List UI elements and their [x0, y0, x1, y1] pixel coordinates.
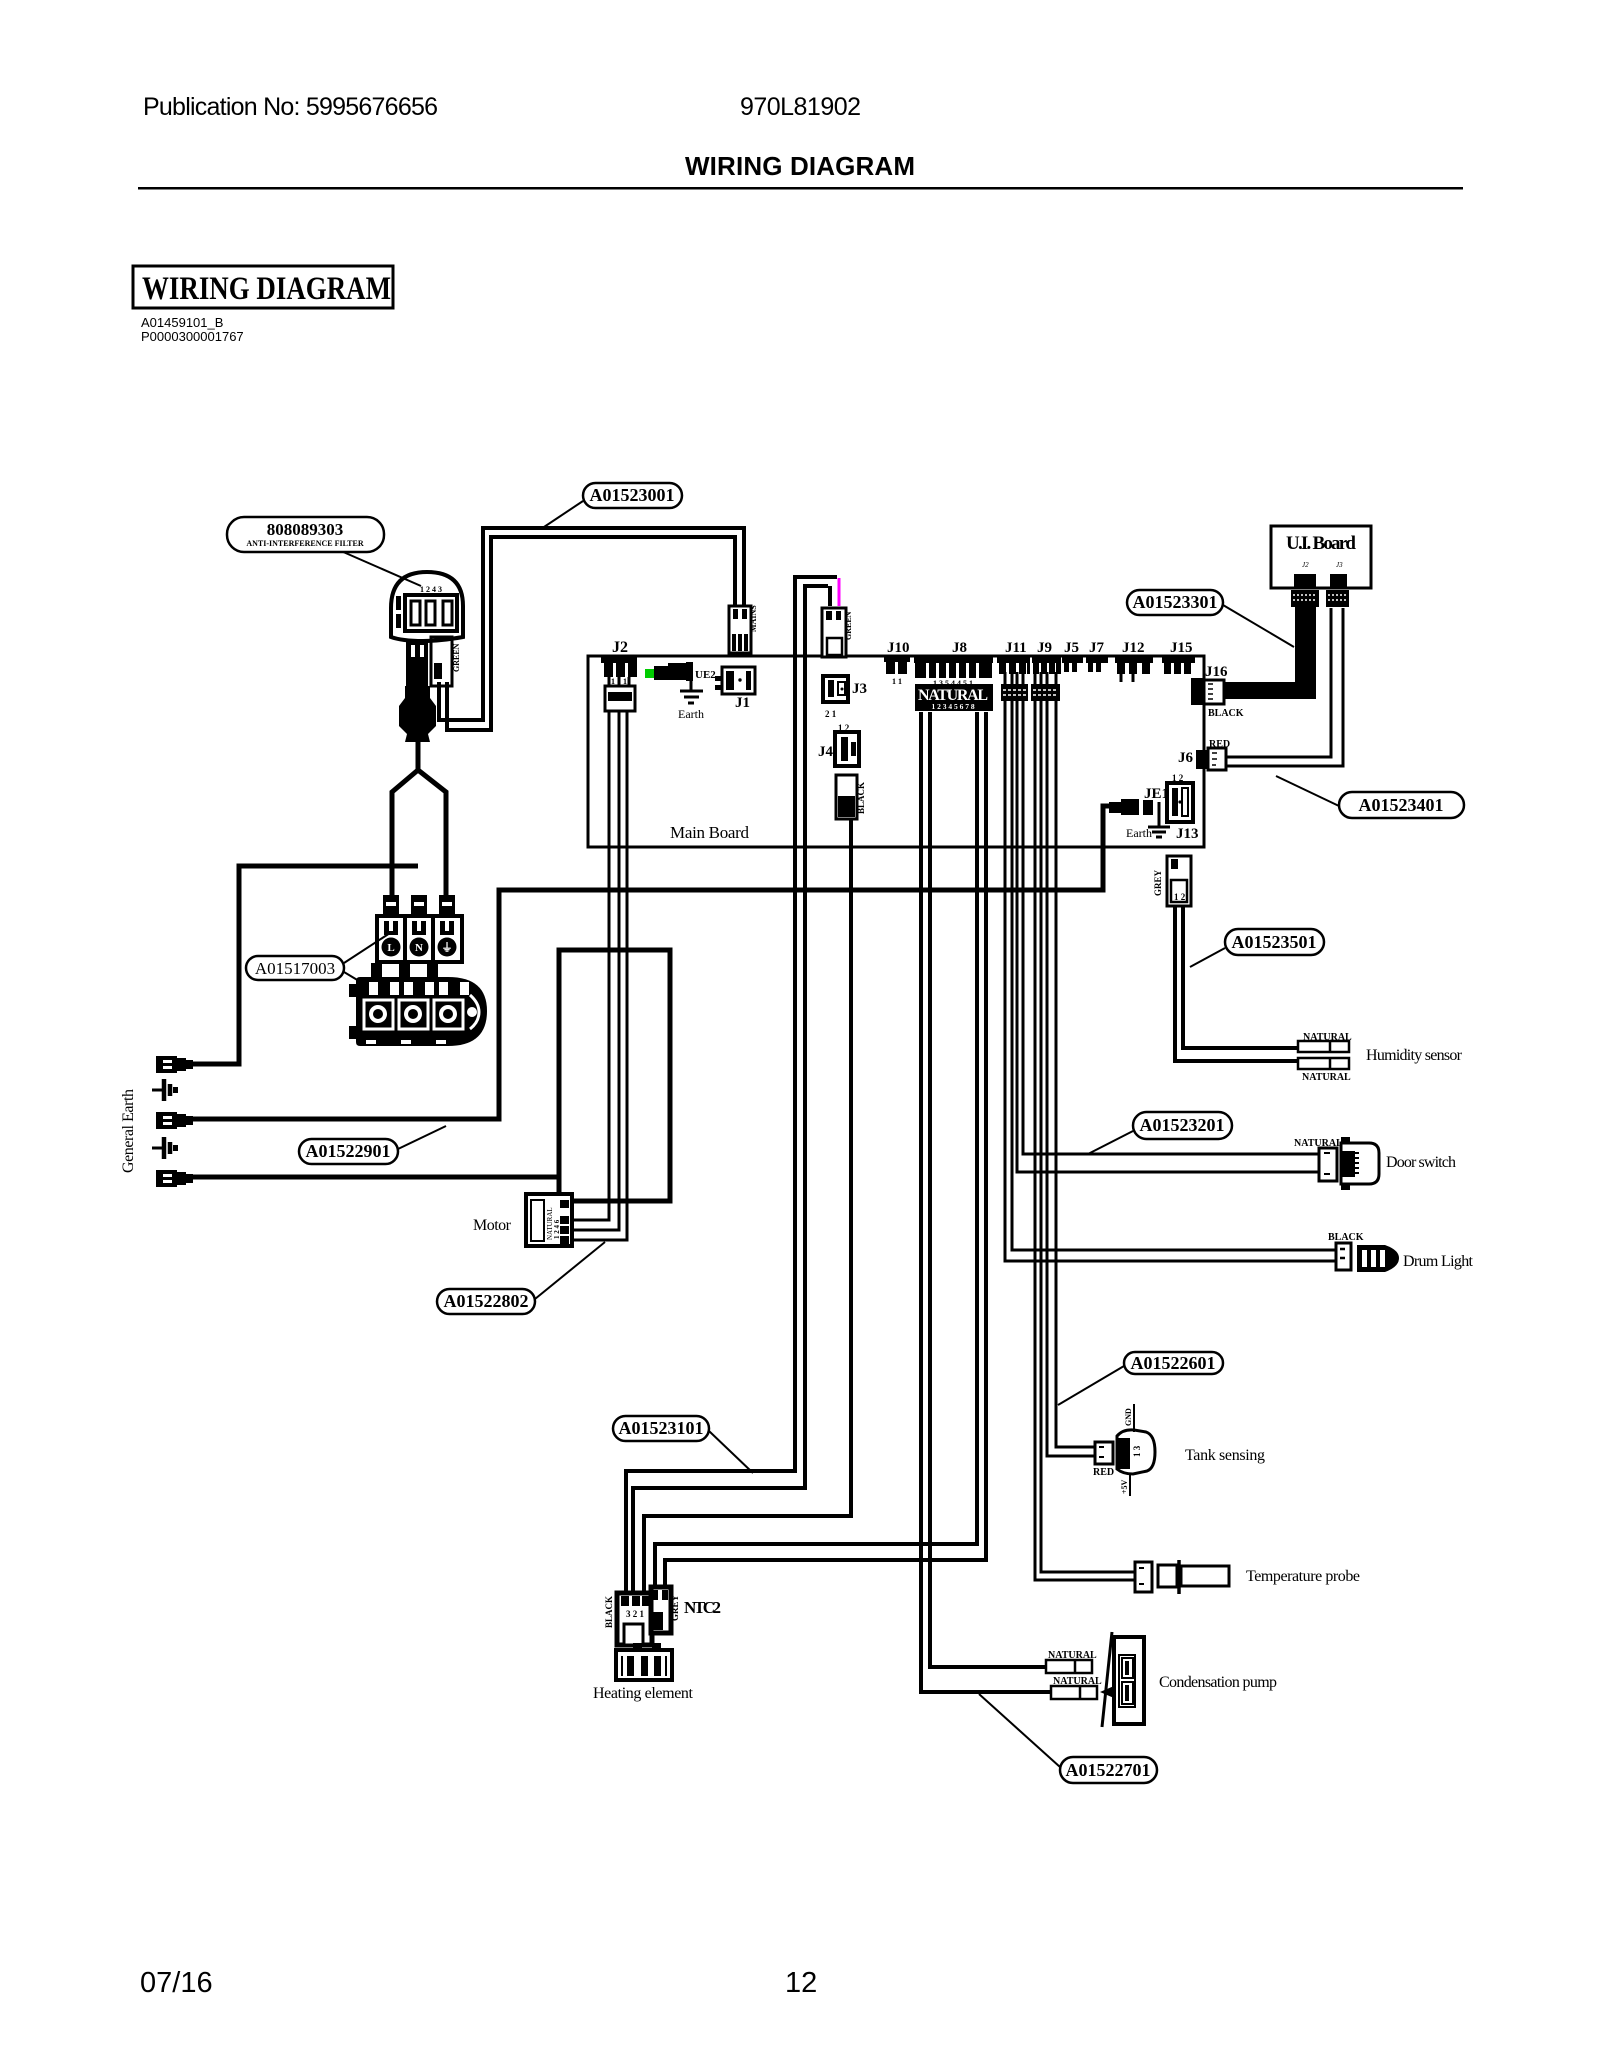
svg-text:A01522901: A01522901: [306, 1141, 391, 1161]
svg-text:J2: J2: [1302, 561, 1309, 569]
svg-text:07/16: 07/16: [140, 1967, 213, 1999]
svg-text:WIRING DIAGRAM: WIRING DIAGRAM: [142, 271, 391, 307]
svg-text:BLACK: BLACK: [604, 1596, 614, 1628]
svg-text:A01522601: A01522601: [1131, 1353, 1216, 1373]
svg-text:J4: J4: [818, 744, 834, 760]
svg-text:+5V: +5V: [1120, 1479, 1129, 1494]
svg-text:J8: J8: [952, 640, 967, 656]
svg-text:L: L: [387, 942, 394, 954]
svg-text:GND: GND: [1124, 1408, 1133, 1426]
svg-text:ANTI-INTERFERENCE FILTER: ANTI-INTERFERENCE FILTER: [246, 539, 364, 548]
svg-text:MAINS: MAINS: [749, 605, 758, 632]
svg-text:A01523201: A01523201: [1140, 1115, 1225, 1135]
svg-text:A01523101: A01523101: [619, 1418, 704, 1438]
svg-text:NATURAL: NATURAL: [1303, 1032, 1352, 1043]
svg-text:J9: J9: [1037, 640, 1052, 656]
svg-text:Earth: Earth: [678, 707, 704, 721]
svg-text:J13: J13: [1176, 826, 1199, 842]
svg-text:Condensation pump: Condensation pump: [1159, 1674, 1277, 1691]
svg-text:GREY: GREY: [1153, 869, 1163, 896]
svg-text:Main Board: Main Board: [670, 823, 750, 842]
svg-text:GREEN: GREEN: [844, 611, 853, 640]
svg-text:A01523001: A01523001: [590, 485, 675, 505]
svg-text:General Earth: General Earth: [120, 1089, 137, 1173]
svg-text:J5: J5: [1064, 640, 1079, 656]
svg-text:J3: J3: [1336, 561, 1343, 569]
svg-text:A01523401: A01523401: [1359, 795, 1444, 815]
svg-text:J11: J11: [1005, 640, 1027, 656]
svg-text:⏚: ⏚: [442, 941, 453, 954]
svg-text:GREEN: GREEN: [452, 643, 461, 672]
svg-text:Tank sensing: Tank sensing: [1185, 1447, 1265, 1464]
svg-text:N: N: [415, 942, 423, 954]
svg-text:970L81902: 970L81902: [740, 93, 861, 121]
svg-text:Publication No: 5995676656: Publication No: 5995676656: [143, 93, 438, 121]
svg-text:NATURAL: NATURAL: [1302, 1072, 1351, 1083]
svg-text:J7: J7: [1089, 640, 1105, 656]
svg-text:J3: J3: [852, 681, 867, 697]
svg-text:J15: J15: [1170, 640, 1193, 656]
svg-text:Door switch: Door switch: [1386, 1154, 1456, 1171]
svg-text:UE2: UE2: [695, 669, 716, 681]
svg-text:BLACK: BLACK: [1208, 708, 1244, 719]
svg-text:12: 12: [785, 1967, 817, 1999]
svg-text:Temperature probe: Temperature probe: [1246, 1568, 1360, 1585]
svg-text:J1: J1: [735, 695, 750, 711]
svg-text:1 3: 1 3: [1132, 1445, 1142, 1457]
svg-text:GREY: GREY: [670, 1594, 680, 1621]
svg-text:1 2 3 4 5 6 7 8: 1 2 3 4 5 6 7 8: [931, 702, 974, 711]
svg-text:J16: J16: [1205, 664, 1228, 680]
svg-text:Humidity sensor: Humidity sensor: [1366, 1047, 1463, 1064]
svg-text:BLACK: BLACK: [856, 782, 866, 814]
svg-text:J10: J10: [887, 640, 910, 656]
svg-text:Motor: Motor: [473, 1217, 512, 1234]
svg-text:1 1: 1 1: [892, 677, 902, 686]
svg-text:Drum Light: Drum Light: [1403, 1253, 1474, 1270]
svg-text:2 1: 2 1: [825, 709, 837, 719]
svg-text:1 2 4 3: 1 2 4 3: [420, 585, 442, 594]
svg-text:Heating element: Heating element: [593, 1685, 694, 1702]
svg-text:A01459101_B: A01459101_B: [141, 315, 223, 330]
svg-text:RED: RED: [1093, 1467, 1114, 1478]
svg-text:P0000300001767: P0000300001767: [141, 329, 244, 344]
svg-text:RED: RED: [1209, 739, 1230, 750]
svg-text:A01517003: A01517003: [255, 959, 335, 978]
svg-text:U.I. Board: U.I. Board: [1286, 533, 1356, 554]
svg-text:J12: J12: [1122, 640, 1145, 656]
svg-text:1: 1: [839, 805, 844, 815]
svg-text:J2: J2: [612, 639, 628, 656]
svg-text:A01522701: A01522701: [1066, 1760, 1151, 1780]
svg-text:1 2: 1 2: [1174, 892, 1186, 902]
svg-text:J6: J6: [1178, 750, 1194, 766]
svg-text:3 2 1: 3 2 1: [626, 1609, 645, 1619]
svg-text:A01523301: A01523301: [1133, 592, 1218, 612]
svg-text:A01523501: A01523501: [1232, 932, 1317, 952]
svg-text:A01522802: A01522802: [444, 1291, 529, 1311]
svg-text:Earth: Earth: [1126, 826, 1152, 840]
svg-text:WIRING DIAGRAM: WIRING DIAGRAM: [685, 151, 915, 181]
svg-text:808089303: 808089303: [267, 520, 344, 539]
svg-text:BLACK: BLACK: [1328, 1232, 1364, 1243]
svg-text:1 2 4 6: 1 2 4 6: [553, 1219, 561, 1239]
svg-text:NTC2: NTC2: [684, 1598, 721, 1617]
